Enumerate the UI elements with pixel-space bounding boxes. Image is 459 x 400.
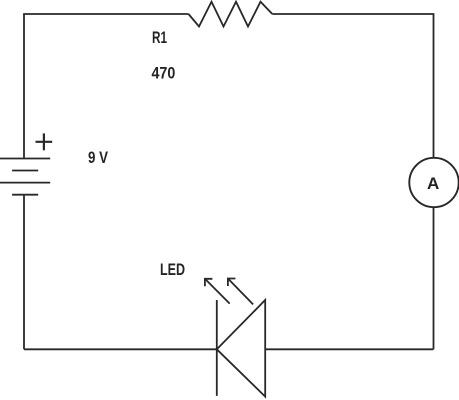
wire left lower segment xyxy=(23,195,25,350)
LED light arrow 2 xyxy=(228,279,253,305)
LED cathode bar xyxy=(216,300,218,396)
LED anode triangle xyxy=(217,300,265,397)
svg-text:LED: LED xyxy=(160,260,185,279)
label R1 xyxy=(152,28,167,47)
wire right lower segment xyxy=(433,208,435,350)
ammeter A1 circle xyxy=(409,158,458,207)
wire bottom left segment xyxy=(24,348,217,350)
battery 9V xyxy=(0,159,50,195)
svg-text:9 V: 9 V xyxy=(88,148,109,167)
label LED xyxy=(160,260,185,279)
value 9 V xyxy=(88,148,109,167)
value 470 xyxy=(152,63,176,82)
wire bottom right segment xyxy=(265,348,433,350)
resistor R1 xyxy=(189,2,273,27)
ammeter letter A xyxy=(427,174,439,193)
svg-text:R1: R1 xyxy=(152,28,167,47)
svg-text:470: 470 xyxy=(152,63,176,82)
wire top left segment xyxy=(24,14,189,159)
battery positive terminal + xyxy=(36,133,53,150)
svg-text:A: A xyxy=(427,174,439,193)
wire top right segment xyxy=(272,14,433,158)
LED light arrow 1 xyxy=(205,279,230,304)
